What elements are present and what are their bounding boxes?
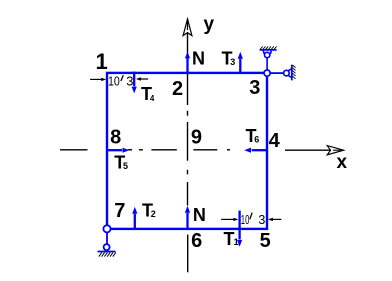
support at node 7 corner: ground hatching [99,252,116,256]
svg-text:7: 7 [114,200,125,222]
force arrow T6 [252,149,267,151]
svg-text:1: 1 [96,49,108,74]
support at node 7 corner: vertical link [106,230,108,245]
force arrow T2 [134,214,136,229]
support at node 3 right: wall hatching [293,65,296,79]
dimension 10/3 bottom-right: left arrow [221,218,234,220]
support at node 7 corner: ground line [98,251,116,253]
x axis arrowhead [327,146,343,155]
force arrow T4 [133,72,135,87]
support at node 3 right: wall line [291,65,293,81]
svg-text:2: 2 [151,209,156,219]
square plate outline [107,73,267,229]
svg-text:5: 5 [123,161,128,171]
support at node 3 top: vertical link [266,58,268,70]
support at node 7 corner: lower pin circle [104,244,110,250]
x axis line [285,149,340,151]
force arrow T5 [107,149,122,151]
support at node 3 top: link funnel [263,51,271,70]
svg-text:6: 6 [254,134,259,144]
svg-text:10: 10 [241,213,250,227]
svg-text:6: 6 [191,230,202,252]
svg-text:4: 4 [269,130,281,152]
support at node 7 corner: hinge circle [103,225,110,232]
y axis arrowhead [183,19,192,36]
svg-text:3: 3 [230,57,235,67]
svg-text:3: 3 [126,74,133,89]
svg-text:N: N [193,205,206,225]
svg-text:x: x [337,152,348,173]
svg-text:3: 3 [249,77,260,99]
svg-text:1: 1 [234,237,239,247]
svg-text:5: 5 [260,230,271,252]
support at node 3 right: link funnel [289,69,292,77]
force arrow N top [107,52,267,247]
support at node 3 top: ground hatching [260,46,277,49]
horizontal center line (dash-dot) [60,149,230,151]
svg-text:10: 10 [108,74,120,89]
dimension 10/3 bottom-right: right arrow [272,218,282,220]
force arrow N bottom [186,213,188,229]
force arrow T3 [239,59,241,73]
node 3 corner hinge circle [264,70,270,76]
dimension 10/3 top-left: left arrow [90,77,281,221]
support at node 3 right: pin circle [284,70,290,76]
support at node 3 top: pin circle [265,52,270,57]
svg-text:N: N [192,48,205,68]
svg-text:2: 2 [172,78,183,100]
dimension 10/3 top-left: right arrow [140,78,148,80]
svg-text:3: 3 [258,213,265,227]
svg-text:8: 8 [110,126,121,148]
svg-text:y: y [204,14,215,35]
vertical center line / y axis (dash-dot) [187,19,189,272]
svg-text:9: 9 [191,127,202,149]
support at node 3 right: horizontal link [270,72,284,74]
force arrow T1 [238,211,240,240]
support at node 3 top: ground line [260,49,277,51]
svg-text:4: 4 [150,94,155,103]
